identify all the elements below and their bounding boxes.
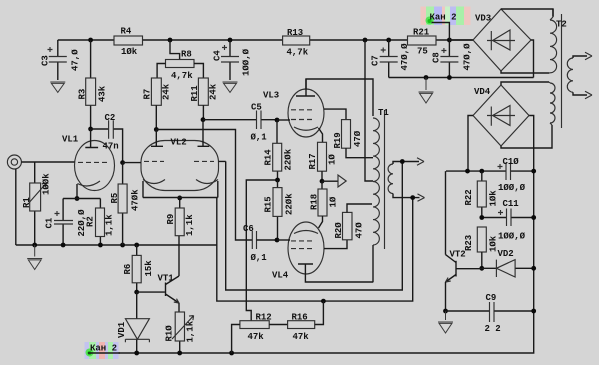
resistor R21 — [408, 28, 437, 57]
transistor VT1 — [158, 236, 180, 312]
svg-text:1ØØ,Ø: 1ØØ,Ø — [498, 183, 526, 193]
input jack — [7, 155, 74, 245]
svg-text:1,1k: 1,1k — [185, 214, 195, 236]
svg-text:R3: R3 — [78, 89, 88, 100]
svg-text:R17: R17 — [308, 153, 318, 169]
node R14 R15 junction — [275, 178, 280, 183]
resistor R5 — [110, 163, 141, 245]
svg-text:2 2: 2 2 — [485, 324, 501, 334]
svg-text:R5: R5 — [110, 193, 120, 204]
net label channel 2 bottom — [85, 342, 121, 359]
resistor R8 — [157, 40, 203, 81]
svg-text:47Ø,Ø: 47Ø,Ø — [400, 43, 410, 71]
svg-text:C8: C8 — [432, 52, 442, 63]
svg-text:1ØØ,Ø: 1ØØ,Ø — [498, 232, 526, 242]
svg-text:T2: T2 — [556, 20, 567, 30]
svg-text:C4: C4 — [213, 50, 223, 61]
node VL1 anode junction — [88, 127, 93, 132]
node VL2 right anode junction — [201, 117, 206, 122]
svg-text:15k: 15k — [144, 260, 154, 277]
svg-text:R18: R18 — [310, 194, 320, 210]
node VT1 base junction — [134, 290, 139, 295]
capacitor C9 — [446, 293, 534, 334]
potentiometer R1 — [22, 162, 52, 245]
svg-text:R21: R21 — [413, 28, 430, 38]
wire VL2 right grid feedback loop — [226, 161, 403, 290]
svg-text:R6: R6 — [123, 264, 133, 275]
svg-text:22Øk: 22Øk — [284, 148, 294, 170]
diode VD1 — [117, 292, 149, 353]
wire R14 node to R12 feed — [246, 180, 277, 321]
resistor R3 — [78, 40, 108, 129]
node ground bus dots — [32, 243, 37, 248]
svg-text:VL3: VL3 — [263, 91, 279, 101]
svg-text:47Ø: 47Ø — [355, 222, 365, 239]
svg-text:R15: R15 — [264, 196, 274, 212]
svg-text:T1: T1 — [378, 108, 389, 118]
tube VL2 — [123, 120, 226, 198]
tube VL4 — [272, 222, 373, 282]
svg-text:VL2: VL2 — [171, 138, 187, 148]
svg-text:1Ø: 1Ø — [329, 196, 339, 207]
wire DC bus C10 level — [446, 170, 534, 172]
svg-text:47Ø,Ø: 47Ø,Ø — [463, 43, 473, 71]
svg-text:R12: R12 — [256, 313, 272, 323]
resistor R4 — [114, 27, 143, 58]
svg-text:Ø,1: Ø,1 — [251, 253, 268, 263]
wire VT1 base — [137, 291, 165, 293]
svg-text:R9: R9 — [166, 214, 176, 225]
svg-text:C1Ø: C1Ø — [503, 157, 520, 167]
resistor R17 — [308, 142, 338, 181]
capacitor C10 — [498, 157, 526, 193]
node bottom bus dots — [134, 351, 139, 356]
svg-text:C7: C7 — [371, 55, 381, 66]
resistor R11 — [190, 78, 219, 120]
svg-text:C3: C3 — [41, 55, 51, 66]
svg-text:R1Ø: R1Ø — [165, 325, 175, 342]
resistor R20 — [334, 204, 372, 240]
transistor VT2 — [446, 171, 482, 311]
capacitor C4 — [213, 40, 252, 80]
svg-text:24k: 24k — [162, 83, 172, 100]
svg-text:Кан 2: Кан 2 — [90, 344, 117, 354]
node output arrow dots — [400, 159, 405, 164]
svg-text:47k: 47k — [248, 332, 265, 342]
svg-text:75: 75 — [417, 47, 428, 57]
node minus bus dots — [424, 75, 429, 80]
svg-text:VD4: VD4 — [474, 87, 491, 97]
resistor R7 — [143, 78, 172, 130]
wire VL1 cathode net — [63, 198, 100, 200]
net label channel 2 top — [421, 7, 471, 41]
node R17 R18 junction — [320, 179, 325, 184]
svg-text:1,1k: 1,1k — [105, 214, 115, 236]
svg-text:R22: R22 — [464, 189, 474, 205]
svg-text:1Ø: 1Ø — [328, 154, 338, 165]
svg-text:C5: C5 — [251, 103, 262, 113]
svg-text:C2: C2 — [105, 113, 116, 123]
svg-text:1ØØ,Ø: 1ØØ,Ø — [242, 48, 252, 76]
resistor R19 — [333, 120, 373, 158]
capacitor C1 — [45, 199, 88, 246]
wire B+ to T1 center tap — [365, 40, 373, 181]
ground (C7 C8) — [419, 78, 434, 104]
capacitor C3 — [41, 40, 81, 80]
node R9 top junction — [177, 196, 182, 201]
svg-text:VL1: VL1 — [62, 135, 79, 145]
node VL3 grid junction — [275, 118, 280, 123]
svg-text:R7: R7 — [143, 89, 153, 100]
node B+ junction dots — [88, 38, 93, 43]
ground (C4) — [223, 82, 238, 92]
svg-text:R2: R2 — [86, 216, 96, 227]
wire ground bus left — [16, 244, 217, 246]
node R16 NFB junction — [321, 299, 326, 304]
bridge rectifier VD3 — [449, 9, 553, 78]
ground (input) — [27, 245, 42, 270]
node VT2 base junction — [479, 266, 484, 271]
wire VL2 left anode to C6 feed — [156, 130, 252, 241]
svg-text:R14: R14 — [264, 149, 274, 166]
svg-text:C6: C6 — [243, 224, 254, 234]
node VT2 emitter junction — [443, 309, 448, 314]
resistor R22 — [464, 171, 499, 217]
ground (VT2) — [438, 311, 453, 333]
svg-text:C11: C11 — [503, 199, 520, 209]
trimmer R10 — [165, 312, 196, 353]
transformer T2 — [549, 9, 592, 128]
svg-text:4,7k: 4,7k — [287, 48, 309, 58]
svg-text:47Øk: 47Øk — [131, 189, 141, 211]
bridge rectifier VD4 — [468, 82, 552, 171]
ground (C3) — [50, 82, 65, 92]
tube VL1 — [62, 129, 115, 199]
svg-text:47k: 47k — [293, 332, 310, 342]
node VL2 grid junction — [120, 160, 125, 165]
svg-text:VT2: VT2 — [450, 250, 466, 260]
capacitor C6 — [243, 224, 277, 263]
resistor R13 — [283, 28, 310, 58]
svg-text:1ØØk: 1ØØk — [42, 173, 52, 195]
resistor R18 — [310, 181, 339, 228]
capacitor C8 — [432, 40, 473, 78]
wire VL2 cathode to NFB return — [217, 198, 413, 302]
svg-text:1Øk: 1Øk — [121, 47, 138, 57]
wire DC bus C11 level — [482, 217, 534, 219]
svg-text:43k: 43k — [98, 85, 108, 102]
svg-text:22Øk: 22Øk — [285, 193, 295, 215]
resistor R16 — [269, 301, 323, 342]
svg-text:R1: R1 — [22, 197, 32, 208]
svg-text:VD1: VD1 — [117, 321, 127, 338]
svg-text:VT1: VT1 — [158, 274, 175, 284]
marker channel arrow — [322, 180, 338, 182]
wire B+ top rail — [58, 39, 473, 41]
resistor R23 — [464, 227, 499, 268]
svg-text:R16: R16 — [292, 313, 308, 323]
resistor R14 — [264, 120, 294, 180]
svg-text:1,1k: 1,1k — [186, 320, 196, 342]
node VL2 left anode junction — [154, 127, 159, 132]
svg-text:Кан 2: Кан 2 — [430, 13, 457, 23]
svg-text:C1: C1 — [45, 217, 55, 228]
resistor R2 — [86, 199, 115, 246]
wire bottom ground bus — [88, 116, 534, 354]
node VL4 grid junction — [275, 238, 280, 243]
svg-text:VD2: VD2 — [498, 249, 514, 259]
svg-text:4,7k: 4,7k — [171, 71, 193, 81]
resistor R15 — [264, 180, 295, 240]
svg-text:C9: C9 — [486, 293, 497, 303]
node C11 bus dots — [479, 215, 484, 220]
diode VD2 — [482, 249, 534, 277]
svg-text:R2Ø: R2Ø — [334, 222, 344, 239]
svg-text:R13: R13 — [287, 28, 303, 38]
svg-text:24k: 24k — [209, 83, 219, 100]
svg-text:R8: R8 — [181, 50, 192, 60]
svg-text:R4: R4 — [121, 27, 132, 37]
capacitor C11 — [498, 199, 526, 242]
svg-text:R11: R11 — [190, 85, 200, 102]
node VL1 cathode junction — [75, 196, 80, 201]
resistor R6 — [123, 245, 154, 292]
svg-text:47Ø: 47Ø — [353, 130, 363, 147]
svg-text:VL4: VL4 — [272, 271, 289, 281]
node C9 right junction — [531, 309, 536, 314]
node C10 bus dots — [465, 169, 470, 174]
resistor R9 — [166, 198, 195, 236]
svg-text:1Øk: 1Øk — [489, 190, 499, 207]
svg-text:R19: R19 — [333, 132, 343, 148]
node VD2 right junction — [531, 266, 536, 271]
capacitor C5 — [203, 103, 277, 143]
svg-text:VD3: VD3 — [475, 14, 491, 24]
svg-text:Ø,1: Ø,1 — [251, 133, 268, 143]
capacitor C2 — [91, 113, 123, 163]
tube VL3 — [263, 79, 346, 142]
resistor R12 — [232, 313, 272, 354]
capacitor C7 — [371, 40, 411, 78]
svg-text:47,Ø: 47,Ø — [71, 49, 81, 71]
transformer T1 — [306, 79, 425, 282]
wire rectifier minus bus — [389, 77, 534, 79]
